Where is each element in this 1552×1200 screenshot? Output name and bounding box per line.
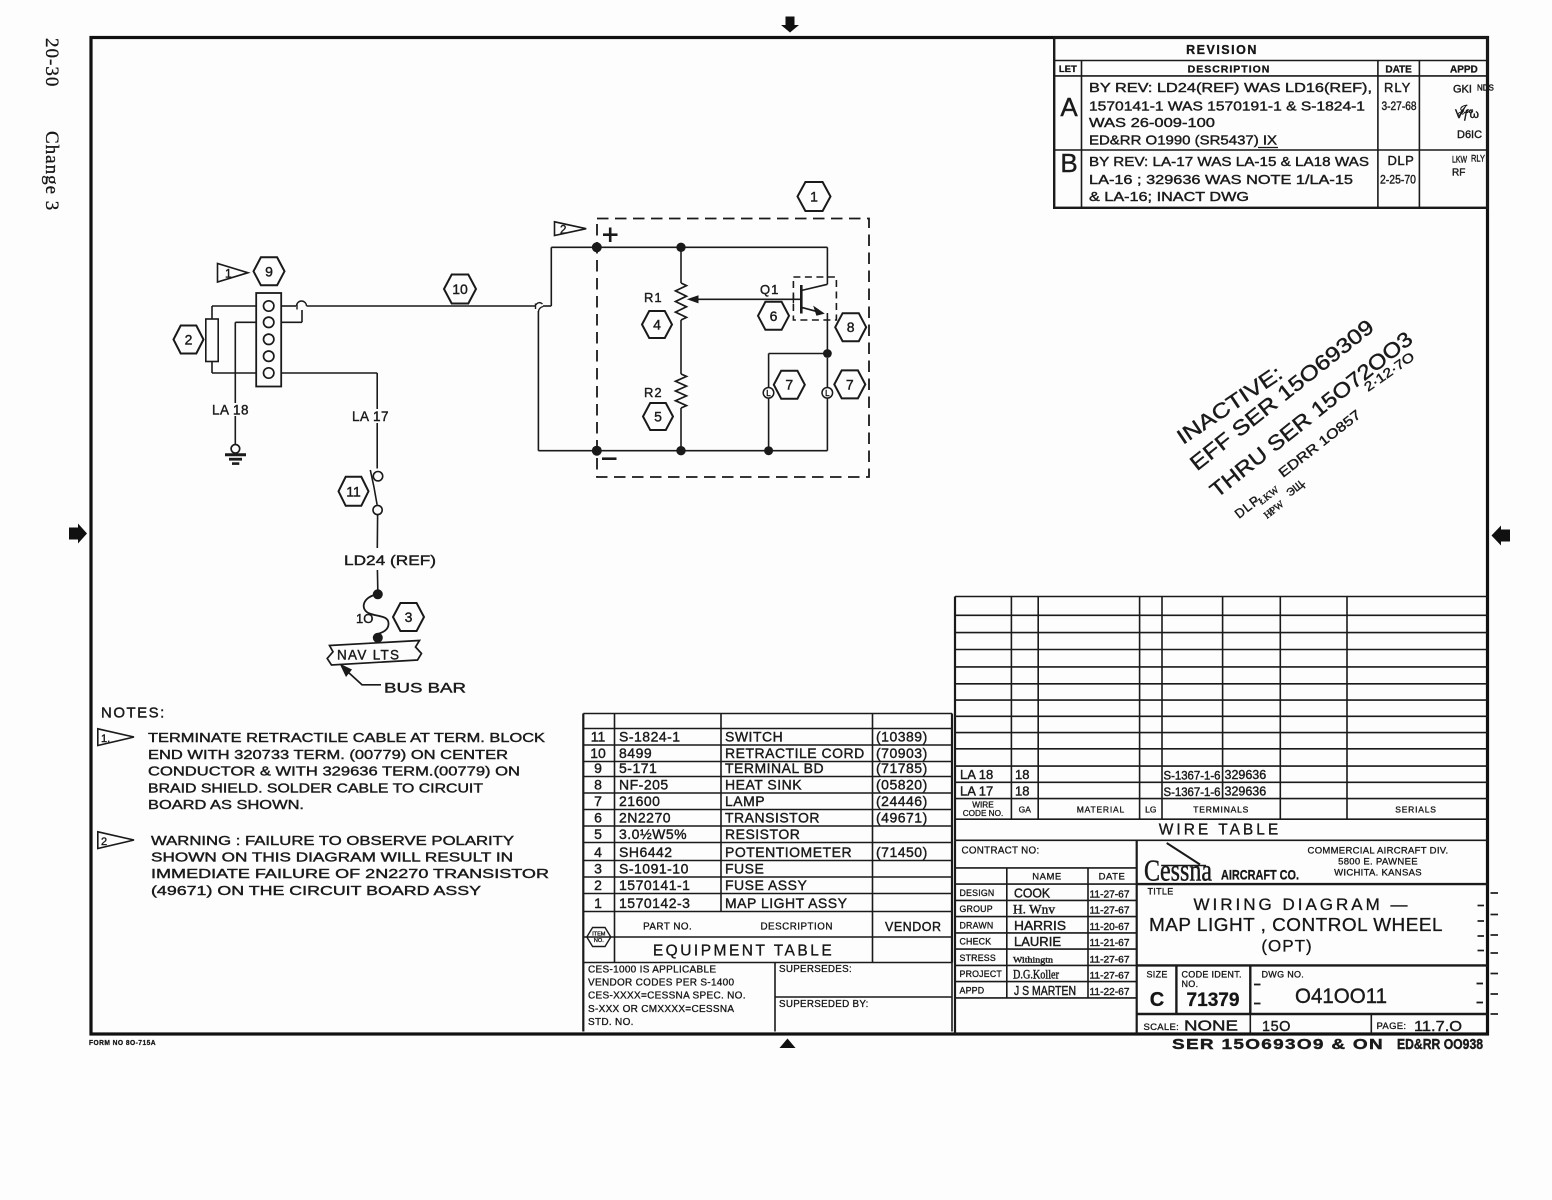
svg-text:2: 2: [560, 225, 566, 237]
svg-text:2: 2: [185, 332, 193, 348]
svg-text:329636: 329636: [1225, 768, 1267, 782]
bus bar pointer arrow: [340, 664, 353, 678]
svg-text:NDS: NDS: [1477, 84, 1494, 93]
svg-text:MAP LIGHT ASSY: MAP LIGHT ASSY: [725, 895, 848, 911]
svg-text:1570142-3: 1570142-3: [619, 895, 690, 911]
retractile cord wire (code 10): [307, 305, 536, 307]
svg-text:5: 5: [594, 826, 602, 842]
svg-text:NF-205: NF-205: [619, 777, 669, 793]
svg-text:DRAWN: DRAWN: [960, 920, 994, 930]
note flag triangle 2 (polarity warning): [555, 222, 587, 236]
left registration arrow: [69, 524, 87, 544]
cord terminal dot lower: [373, 633, 383, 643]
wire LD24 to cord: [376, 570, 378, 590]
svg-text:(49671) ON THE CIRCUIT BOARD: (49671) ON THE CIRCUIT BOARD ASSY: [151, 883, 481, 898]
plus polarity mark: [603, 233, 618, 236]
svg-text:1.: 1.: [101, 733, 110, 745]
callout 5 resistor: [643, 403, 673, 430]
svg-text:R2: R2: [644, 385, 663, 400]
svg-text:D6IC: D6IC: [1457, 129, 1482, 141]
svg-text:6: 6: [770, 308, 778, 324]
svg-text:TERMINATE RETRACTILE CABLE AT: TERMINATE RETRACTILE CABLE AT TERM. BLOC…: [148, 730, 545, 745]
svg-text:(OPT): (OPT): [1261, 937, 1312, 956]
svg-text:NONE: NONE: [1184, 1019, 1238, 1035]
svg-text:WAS 26-009-100: WAS 26-009-100: [1089, 115, 1215, 130]
svg-text:7: 7: [846, 376, 854, 392]
svg-text:APPD: APPD: [960, 985, 985, 995]
note flag 1: [98, 729, 134, 746]
svg-text:LA 17: LA 17: [960, 784, 993, 799]
wire left lamp to - rail: [768, 398, 770, 451]
svg-text:REVISION: REVISION: [1186, 43, 1258, 57]
wire fuse bottom to terminal5: [211, 362, 213, 374]
svg-text:A: A: [1060, 92, 1078, 122]
lamp branch node: [823, 349, 832, 358]
svg-text:MATERIAL: MATERIAL: [1077, 805, 1125, 815]
svg-text:S-1367-1-6: S-1367-1-6: [1164, 787, 1221, 799]
wire right lamp to - rail: [826, 398, 828, 451]
svg-text:71379: 71379: [1187, 990, 1240, 1011]
svg-text:5: 5: [654, 409, 662, 425]
svg-text:2: 2: [101, 836, 107, 848]
svg-text:APPD: APPD: [1450, 65, 1478, 76]
svg-text:C: C: [1150, 989, 1164, 1011]
svg-text:8: 8: [847, 319, 855, 335]
minus polarity mark: [602, 457, 617, 460]
svg-text:STRESS: STRESS: [960, 953, 996, 963]
svg-text:STD. NO.: STD. NO.: [588, 1017, 634, 1028]
+ rail wire: [597, 246, 828, 248]
note flag 2: [98, 832, 134, 849]
svg-text:(71785): (71785): [876, 760, 928, 776]
svg-text:3: 3: [405, 609, 413, 625]
cord terminal dot upper: [373, 589, 383, 599]
svg-text:Vƒω: Vƒω: [1455, 107, 1479, 121]
svg-text:1570141-1: 1570141-1: [619, 877, 690, 893]
svg-text:(10389): (10389): [876, 729, 928, 745]
svg-text:11-20-67: 11-20-67: [1090, 921, 1130, 933]
margin ticks right of border: [1491, 892, 1499, 894]
equipment table frame: [583, 714, 952, 1032]
wire to left lamp: [769, 353, 828, 355]
svg-text:PAGE:: PAGE:: [1377, 1021, 1407, 1032]
wire R1 to R2: [680, 320, 682, 374]
svg-text:21600: 21600: [619, 793, 660, 809]
svg-text:6: 6: [594, 810, 602, 826]
wire LA18 from terminal2 to ground: [235, 321, 256, 323]
svg-text:LAMP: LAMP: [725, 793, 765, 809]
R1 potentiometer (item 4): [680, 247, 682, 283]
Q1 emitter wire down to lamp node: [826, 313, 828, 354]
svg-text:11-21-67: 11-21-67: [1090, 937, 1130, 949]
callout 7 lamp right: [834, 370, 865, 398]
callout 3 fuse: [393, 603, 424, 631]
note flag triangle 1 (at terminal board): [218, 264, 249, 283]
svg-text:SCALE:: SCALE:: [1144, 1022, 1180, 1033]
svg-text:CODE IDENT.: CODE IDENT.: [1182, 970, 1242, 980]
svg-text:LA 18: LA 18: [212, 403, 249, 418]
svg-text:11-27-67: 11-27-67: [1090, 905, 1130, 917]
svg-text:SIZE: SIZE: [1147, 970, 1168, 980]
svg-text:SERIALS: SERIALS: [1395, 805, 1437, 815]
svg-text:GKI: GKI: [1453, 84, 1472, 96]
item no hexagon: [587, 928, 611, 947]
svg-text:LAURIE: LAURIE: [1014, 935, 1061, 949]
svg-text:S-1824-1: S-1824-1: [619, 729, 681, 745]
svg-text:HEAT SINK: HEAT SINK: [725, 777, 802, 793]
svg-text:RLY: RLY: [1384, 80, 1411, 95]
svg-text:LD24 (REF): LD24 (REF): [344, 552, 436, 568]
svg-text:CONDUCTOR & WITH 329636 TERM.(: CONDUCTOR & WITH 329636 TERM.(00779) ON: [148, 764, 520, 779]
wire terminal1 to fuse top: [212, 305, 256, 307]
svg-text:S-1367-1-6: S-1367-1-6: [1164, 771, 1221, 783]
- node junction: [592, 446, 602, 456]
svg-text:ED&RR OO938: ED&RR OO938: [1397, 1037, 1483, 1053]
callout 6 transistor: [758, 302, 789, 330]
svg-text:2N2270: 2N2270: [619, 810, 671, 826]
svg-text:9: 9: [265, 263, 273, 279]
svg-text:BOARD AS SHOWN.: BOARD AS SHOWN.: [148, 797, 304, 812]
svg-text:FUSE: FUSE: [725, 861, 764, 877]
svg-text:RF: RF: [1452, 168, 1465, 179]
shield pigtail to terminal2: [301, 310, 303, 322]
transistor Q1 (item 6): [801, 284, 827, 313]
- rail wire: [597, 450, 828, 452]
svg-text:9: 9: [594, 760, 602, 776]
svg-text:(05820): (05820): [876, 777, 928, 793]
map light assy dashed enclosure (item 1): [597, 219, 869, 478]
svg-text:NOTES:: NOTES:: [101, 705, 166, 722]
lamp DS2 (item 7): [822, 388, 833, 399]
svg-text:10: 10: [452, 281, 468, 297]
svg-text:11-27-67: 11-27-67: [1090, 954, 1130, 964]
svg-text:LET: LET: [1059, 64, 1077, 75]
callout 1 map light assy: [798, 182, 831, 211]
svg-text:ED&RR O1990 (SR5437) IX: ED&RR O1990 (SR5437) IX: [1089, 133, 1277, 148]
svg-text:EQUIPMENT TABLE: EQUIPMENT TABLE: [653, 943, 834, 960]
svg-text:NAME: NAME: [1032, 872, 1061, 883]
svg-text:CES-1000 IS APPLICABLE: CES-1000 IS APPLICABLE: [588, 965, 716, 976]
right registration arrow: [1492, 526, 1511, 546]
lamp DS1 (item 7): [763, 388, 774, 399]
svg-text:SUPERSEDES:: SUPERSEDES:: [779, 964, 852, 975]
svg-text:(24446): (24446): [876, 793, 928, 809]
svg-text:3.0½W5%: 3.0½W5%: [619, 826, 687, 842]
svg-text:ITEM: ITEM: [592, 932, 606, 938]
svg-text:Cessna: Cessna: [1144, 854, 1212, 888]
svg-text:3: 3: [594, 861, 602, 877]
svg-text:IMMEDIATE FAILURE OF 2N2270 T: IMMEDIATE FAILURE OF 2N2270 TRANSISTOR: [151, 866, 549, 881]
svg-text:(49671): (49671): [876, 810, 928, 826]
svg-text:7: 7: [594, 793, 602, 809]
junction at R1 top: [676, 243, 685, 252]
connector hooks at terminal board end: [297, 301, 307, 310]
svg-text:RETRACTILE CORD: RETRACTILE CORD: [725, 745, 865, 761]
svg-text:Withingtn: Withingtn: [1013, 954, 1054, 964]
svg-text:VENDOR CODES PER S-1400: VENDOR CODES PER S-1400: [588, 978, 735, 989]
top registration arrow: [781, 17, 799, 33]
svg-text:DATE: DATE: [1385, 65, 1412, 76]
callout 2 fuse assy: [174, 326, 204, 354]
svg-text:O41OO11: O41OO11: [1295, 984, 1387, 1008]
svg-text:BUS BAR: BUS BAR: [384, 680, 466, 696]
svg-text:8: 8: [594, 777, 602, 793]
svg-text:NO.: NO.: [1182, 979, 1199, 989]
svg-text:L: L: [825, 389, 830, 398]
svg-text:1570141-1 WAS 1570191-1 & S-18: 1570141-1 WAS 1570191-1 & S-1824-1: [1089, 99, 1365, 114]
bottom registration arrow: [780, 1039, 796, 1049]
svg-text:3-27-68: 3-27-68: [1382, 99, 1417, 113]
svg-text:4: 4: [653, 317, 661, 333]
svg-text:BY REV: LD24(REF) WAS LD16(RE: BY REV: LD24(REF) WAS LD16(REF),: [1089, 80, 1372, 95]
svg-text:TRANSISTOR: TRANSISTOR: [725, 810, 820, 826]
center conductor to + node: [543, 305, 551, 307]
svg-text:GA: GA: [1019, 805, 1032, 815]
svg-text:DATE: DATE: [1099, 872, 1126, 883]
svg-text:COOK: COOK: [1014, 886, 1051, 900]
svg-text:H. Wnv: H. Wnv: [1013, 903, 1056, 917]
svg-text:2: 2: [594, 877, 602, 893]
svg-text:R1: R1: [644, 290, 663, 305]
svg-text:AIRCRAFT CO.: AIRCRAFT CO.: [1221, 868, 1299, 883]
svg-text:L: L: [766, 389, 771, 398]
svg-text:COMMERCIAL AIRCRAFT DIV.: COMMERCIAL AIRCRAFT DIV.: [1308, 846, 1449, 857]
svg-text:11: 11: [346, 483, 361, 499]
junction at R2 bottom: [676, 446, 685, 455]
svg-text:WIRING DIAGRAM —: WIRING DIAGRAM —: [1193, 895, 1410, 914]
wire LA17 from terminal5 to switch: [281, 372, 377, 374]
svg-text:2-25-70: 2-25-70: [1380, 173, 1416, 187]
svg-text:11-27-67: 11-27-67: [1090, 971, 1130, 981]
svg-text:DESCRIPTION: DESCRIPTION: [1188, 64, 1271, 76]
svg-text:WARNING : FAILURE TO OBSERVE: WARNING : FAILURE TO OBSERVE POLARITY: [151, 833, 514, 848]
svg-text:WIRE TABLE: WIRE TABLE: [1159, 822, 1281, 839]
svg-text:J S MARTEN: J S MARTEN: [1014, 984, 1076, 998]
svg-text:5-171: 5-171: [619, 760, 657, 776]
svg-text:D.G.Koller: D.G.Koller: [1013, 968, 1060, 982]
coiled cord symbol: [364, 594, 389, 634]
svg-text:POTENTIOMETER: POTENTIOMETER: [725, 844, 852, 860]
svg-text:& LA-16; INACT DWG: & LA-16; INACT DWG: [1089, 189, 1249, 204]
svg-text:SWITCH: SWITCH: [725, 729, 783, 745]
svg-text:SUPERSEDED BY:: SUPERSEDED BY:: [779, 999, 869, 1010]
svg-text:WICHITA. KANSAS: WICHITA. KANSAS: [1334, 868, 1422, 879]
svg-text:VENDOR: VENDOR: [885, 920, 941, 934]
svg-text:DESIGN: DESIGN: [960, 888, 995, 898]
svg-text:RLY: RLY: [1471, 154, 1486, 165]
wire table frame: [955, 597, 1488, 841]
svg-text:LA 17: LA 17: [352, 409, 389, 424]
svg-text:DESCRIPTION: DESCRIPTION: [760, 922, 832, 933]
svg-text:NO.: NO.: [594, 938, 604, 944]
callout 7 lamp left: [774, 371, 805, 399]
svg-text:10: 10: [590, 745, 606, 761]
shield wire to - node: [537, 311, 539, 451]
svg-text:Q1: Q1: [760, 282, 779, 297]
revision table frame: [1054, 38, 1487, 208]
svg-text:4: 4: [594, 844, 602, 860]
callout 9 terminal board: [254, 257, 285, 285]
svg-text:SER 15O693O9 & ON: SER 15O693O9 & ON: [1172, 1037, 1384, 1053]
NAV LTS bus banner: [327, 641, 421, 666]
ground symbol: [225, 445, 246, 464]
callout 4 potentiometer: [642, 311, 672, 338]
svg-text:NAV LTS: NAV LTS: [337, 648, 400, 663]
svg-text:MAP LIGHT , CONTROL WHEEL: MAP LIGHT , CONTROL WHEEL: [1149, 914, 1443, 935]
svg-text:BY REV: LA-17 WAS LA-15 & LA18: BY REV: LA-17 WAS LA-15 & LA18 WAS: [1089, 154, 1369, 169]
svg-text:18: 18: [1015, 784, 1029, 799]
svg-text:1: 1: [225, 267, 232, 281]
svg-text:LA 18: LA 18: [960, 767, 993, 782]
svg-text:SH6442: SH6442: [619, 844, 673, 860]
vendor codes note box: [583, 963, 952, 1032]
svg-text:S-1091-10: S-1091-10: [619, 861, 689, 877]
heat sink dashed box (item 8): [793, 277, 836, 320]
svg-text:TERMINAL BD: TERMINAL BD: [725, 760, 824, 776]
callout 8 heat sink: [835, 313, 866, 341]
svg-text:GROUP: GROUP: [960, 904, 993, 914]
fuse assy (item 2) body: [206, 319, 218, 362]
switch S1 (item 11): [373, 472, 382, 481]
svg-text:LKW: LKW: [1452, 155, 1467, 166]
wire switch to LD24: [376, 515, 378, 548]
svg-text:S-XXX OR CMXXXX=CESSNA: S-XXX OR CMXXXX=CESSNA: [588, 1004, 734, 1015]
title block frame: [955, 840, 1488, 1034]
svg-text:1: 1: [594, 895, 602, 911]
wiper wire to Q1 base: [698, 298, 801, 300]
svg-text:15O: 15O: [1262, 1019, 1291, 1035]
callout 11 switch: [339, 477, 369, 506]
svg-text:BRAID SHIELD. SOLDER CABLE TO: BRAID SHIELD. SOLDER CABLE TO CIRCUIT: [148, 780, 483, 795]
svg-text:11.7.O: 11.7.O: [1414, 1019, 1462, 1035]
svg-text:20-30: 20-30: [41, 38, 62, 87]
svg-text:HARRIS: HARRIS: [1014, 919, 1066, 933]
Q1 collector wire to + rail: [826, 247, 828, 284]
svg-text:TERMINALS: TERMINALS: [1193, 805, 1249, 815]
svg-text:(70903): (70903): [876, 745, 928, 761]
R2 resistor (item 5): [676, 374, 687, 408]
svg-text:RESISTOR: RESISTOR: [725, 826, 800, 842]
wire terminal1 to cord connector: [281, 305, 296, 307]
svg-text:11-27-67: 11-27-67: [1090, 888, 1130, 900]
wire to right lamp: [826, 358, 828, 388]
svg-text:CODE NO.: CODE NO.: [963, 809, 1004, 818]
svg-text:LA-16 ; 329636 WAS NOTE 1/LA-1: LA-16 ; 329636 WAS NOTE 1/LA-15: [1089, 172, 1353, 187]
svg-text:PROJECT: PROJECT: [960, 969, 1003, 979]
svg-text:CONTRACT NO:: CONTRACT NO:: [962, 846, 1040, 857]
connector hooks at map light end: [535, 303, 543, 312]
svg-text:LG: LG: [1145, 805, 1156, 815]
svg-text:11: 11: [591, 729, 606, 745]
svg-text:18: 18: [1015, 767, 1029, 782]
callout 10 retractile cord: [444, 275, 476, 304]
R1 wiper arrow: [687, 295, 699, 303]
svg-text:PART NO.: PART NO.: [643, 922, 692, 933]
svg-text:FUSE ASSY: FUSE ASSY: [725, 877, 807, 893]
svg-text:TITLE: TITLE: [1148, 887, 1174, 897]
svg-text:CHECK: CHECK: [960, 937, 992, 947]
svg-text:DLP: DLP: [1388, 153, 1415, 168]
svg-text:END WITH 320733 TERM. (00779): END WITH 320733 TERM. (00779) ON CENTER: [148, 747, 508, 762]
svg-text:7: 7: [785, 377, 793, 393]
svg-text:329636: 329636: [1225, 785, 1267, 799]
svg-text:11-22-67: 11-22-67: [1090, 986, 1130, 998]
svg-text:SHOWN ON THIS DIAGRAM WILL RES: SHOWN ON THIS DIAGRAM WILL RESULT IN: [151, 850, 513, 865]
svg-text:FORM NO 8O-715A: FORM NO 8O-715A: [89, 1038, 156, 1047]
svg-text:1: 1: [810, 189, 818, 205]
svg-text:1O: 1O: [356, 611, 373, 626]
svg-text:CES-XXXX=CESSNA SPEC. NO.: CES-XXXX=CESSNA SPEC. NO.: [588, 991, 746, 1002]
+ node junction: [592, 242, 602, 252]
svg-text:DWG NO.: DWG NO.: [1262, 970, 1305, 980]
svg-text:(71450): (71450): [876, 844, 928, 860]
terminal block TB (item 9): [256, 293, 281, 387]
svg-text:B: B: [1060, 148, 1077, 178]
svg-text:Change 3: Change 3: [41, 131, 62, 211]
svg-text:8499: 8499: [619, 745, 652, 761]
svg-text:5800 E. PAWNEE: 5800 E. PAWNEE: [1338, 857, 1418, 868]
